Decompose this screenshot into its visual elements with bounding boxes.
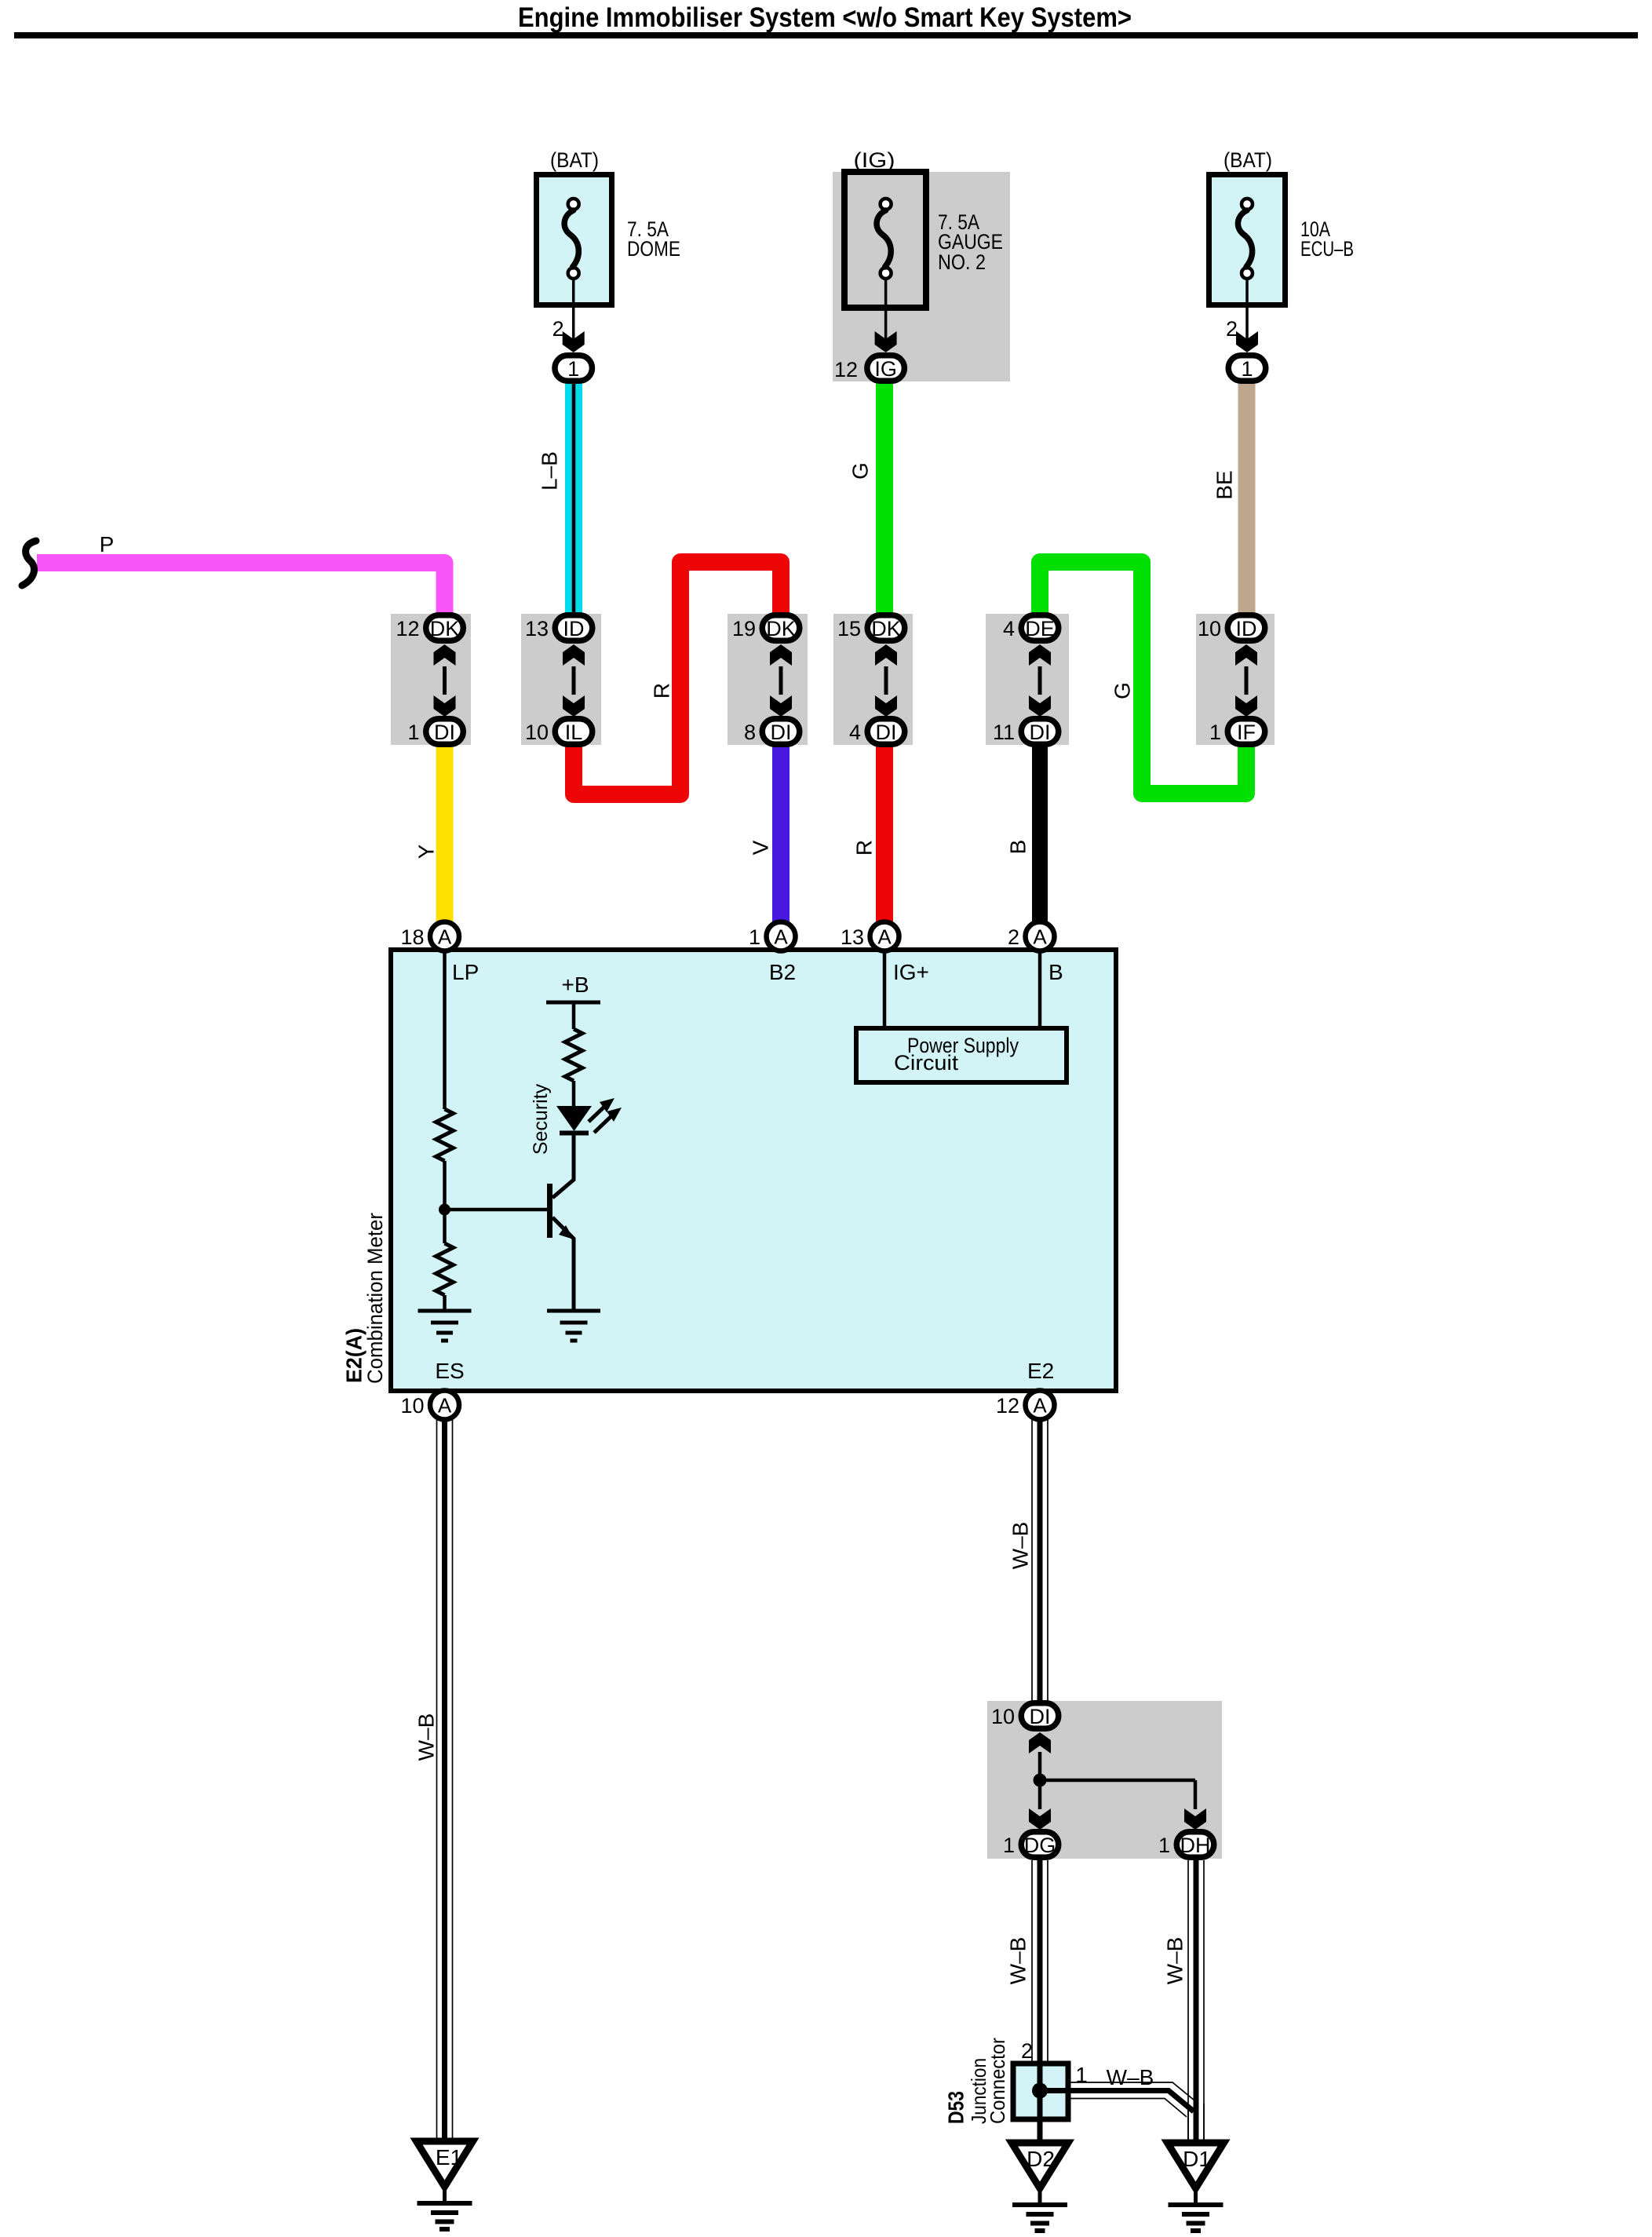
svg-text:19: 19 xyxy=(732,617,756,640)
svg-text:G: G xyxy=(1110,682,1135,699)
svg-text:(BAT): (BAT) xyxy=(550,148,599,172)
svg-text:10: 10 xyxy=(991,1705,1015,1728)
svg-text:2: 2 xyxy=(1008,925,1019,949)
svg-text:1: 1 xyxy=(1075,2063,1088,2087)
svg-text:E1: E1 xyxy=(436,2145,462,2169)
svg-text:W–B: W–B xyxy=(1006,1937,1030,1985)
svg-text:L–B: L–B xyxy=(538,451,562,491)
svg-text:Circuit: Circuit xyxy=(894,1051,959,1075)
svg-text:W–B: W–B xyxy=(1163,1937,1187,1985)
svg-text:2: 2 xyxy=(1226,317,1238,341)
svg-text:DE: DE xyxy=(1025,617,1055,640)
svg-text:DI: DI xyxy=(434,721,455,744)
svg-text:1: 1 xyxy=(749,925,760,949)
svg-text:B: B xyxy=(1048,960,1063,984)
svg-text:E2: E2 xyxy=(1027,1359,1054,1383)
svg-text:Connector: Connector xyxy=(986,2038,1009,2124)
svg-text:DI: DI xyxy=(771,721,792,744)
svg-text:D53: D53 xyxy=(944,2091,968,2124)
svg-text:10: 10 xyxy=(525,721,549,744)
svg-text:13: 13 xyxy=(841,925,864,949)
svg-text:Engine Immobiliser System <w/o: Engine Immobiliser System <w/o Smart Key… xyxy=(518,2,1132,33)
svg-text:ES: ES xyxy=(435,1359,464,1383)
svg-text:11: 11 xyxy=(993,721,1015,744)
svg-text:1: 1 xyxy=(1158,1834,1170,1857)
svg-text:DG: DG xyxy=(1024,1834,1056,1857)
svg-text:1: 1 xyxy=(407,721,419,744)
svg-text:1: 1 xyxy=(1003,1834,1015,1857)
svg-text:DK: DK xyxy=(871,617,901,640)
svg-text:4: 4 xyxy=(849,721,861,744)
svg-text:IG+: IG+ xyxy=(893,960,929,984)
svg-text:10: 10 xyxy=(400,1394,424,1418)
svg-text:W–B: W–B xyxy=(1008,1522,1033,1570)
svg-text:B: B xyxy=(1006,840,1030,855)
svg-text:15: 15 xyxy=(837,617,861,640)
svg-text:V: V xyxy=(749,840,773,855)
svg-text:ID: ID xyxy=(1236,617,1257,640)
svg-text:10: 10 xyxy=(1198,617,1221,640)
svg-text:12: 12 xyxy=(834,358,858,381)
svg-text:1: 1 xyxy=(1241,357,1253,381)
svg-text:R: R xyxy=(650,683,674,699)
svg-text:W–B: W–B xyxy=(1107,2065,1154,2089)
svg-text:D2: D2 xyxy=(1027,2147,1055,2171)
svg-text:DI: DI xyxy=(1030,721,1051,744)
svg-text:4: 4 xyxy=(1003,617,1015,640)
svg-text:8: 8 xyxy=(744,721,756,744)
svg-text:+B: +B xyxy=(561,973,589,997)
svg-text:P: P xyxy=(100,532,115,557)
svg-text:Y: Y xyxy=(414,844,439,859)
svg-text:12: 12 xyxy=(996,1394,1019,1418)
svg-text:G: G xyxy=(848,462,873,480)
svg-text:(IG): (IG) xyxy=(854,148,895,172)
svg-text:W–B: W–B xyxy=(414,1713,439,1761)
svg-text:ID: ID xyxy=(563,617,585,640)
svg-text:18: 18 xyxy=(400,925,424,949)
svg-text:LP: LP xyxy=(452,960,479,984)
svg-text:IG: IG xyxy=(874,357,897,381)
svg-text:E2(A): E2(A) xyxy=(342,1328,367,1383)
svg-text:DI: DI xyxy=(1030,1705,1051,1728)
svg-text:NO. 2: NO. 2 xyxy=(938,250,986,274)
svg-text:DH: DH xyxy=(1180,1834,1211,1857)
svg-text:DK: DK xyxy=(766,617,796,640)
svg-text:Combination Meter: Combination Meter xyxy=(363,1213,387,1384)
svg-text:DOME: DOME xyxy=(627,237,680,261)
svg-text:BE: BE xyxy=(1213,470,1237,499)
svg-text:Security: Security xyxy=(530,1083,552,1155)
svg-text:2: 2 xyxy=(1021,2039,1033,2063)
svg-text:IL: IL xyxy=(565,721,583,744)
svg-text:1: 1 xyxy=(567,357,579,381)
svg-text:D1: D1 xyxy=(1183,2147,1211,2171)
svg-text:IF: IF xyxy=(1237,721,1256,744)
svg-text:B2: B2 xyxy=(769,960,796,984)
svg-text:R: R xyxy=(852,840,877,856)
svg-text:ECU–B: ECU–B xyxy=(1300,237,1354,261)
svg-text:(BAT): (BAT) xyxy=(1224,148,1272,172)
svg-text:2: 2 xyxy=(552,317,564,341)
svg-text:12: 12 xyxy=(396,617,419,640)
svg-text:DK: DK xyxy=(430,617,460,640)
svg-text:1: 1 xyxy=(1209,721,1221,744)
svg-text:13: 13 xyxy=(525,617,549,640)
svg-text:DI: DI xyxy=(876,721,897,744)
